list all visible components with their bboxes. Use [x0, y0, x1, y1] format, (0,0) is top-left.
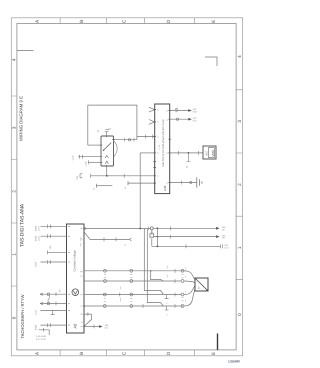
wire module to v-bus: [140, 152, 155, 154]
connector pair on row 156.7: [80, 155, 83, 159]
relay contact pivot: [103, 150, 104, 151]
connector circle a row 281: [104, 280, 107, 283]
stub connector row 185.7: [97, 185, 113, 187]
svg-text:TAS-DIGI TAS-ANA: TAS-DIGI TAS-ANA: [19, 203, 25, 247]
svg-text:31: 31: [81, 320, 84, 323]
connector circle b row 294.5: [130, 293, 133, 296]
end tick row 252.3: [46, 250, 48, 254]
tick row 306: [142, 304, 144, 308]
svg-text:1102: 1102: [85, 161, 88, 167]
svg-text:1119: 1119: [38, 226, 41, 231]
wire A8 row 226.3: [40, 225, 66, 227]
junction dot row y236.6: [157, 236, 159, 238]
tick row y228: [170, 226, 172, 230]
relay bottom stub: [106, 166, 108, 176]
wire relay pin to loop: [114, 139, 137, 141]
relay K1: [101, 136, 114, 166]
connector circle row 2: [176, 118, 178, 120]
connector link a rows 271-281: [104, 274, 106, 277]
connector pair row 236.2: [48, 234, 51, 238]
continuation arrow row 303.5: [40, 302, 43, 304]
junction dot row y246.3: [157, 245, 159, 247]
vertical bus vM: [147, 229, 163, 307]
tick row y246.3: [185, 244, 187, 248]
connector circle row 306r: [181, 305, 184, 308]
node stub at frame left: [17, 50, 34, 52]
bar row 183: [127, 181, 129, 185]
end connector row y246.3: [221, 244, 223, 248]
bracket before circle: [148, 227, 150, 231]
connector brackets: [125, 138, 135, 142]
connector link b rows 294-306: [130, 298, 132, 302]
svg-text:4: 4: [237, 55, 242, 58]
tick row 294.5: [119, 293, 121, 297]
svg-text:E: E: [211, 352, 216, 355]
wire relay row 162.3: [89, 161, 102, 163]
svg-text:1102: 1102: [35, 309, 38, 315]
module pin ticks right: [168, 111, 171, 183]
junction relay to bus: [106, 175, 108, 177]
output arrow row 1: [170, 110, 190, 112]
unit A8 pin marks inside: [68, 226, 83, 326]
svg-text:2: 2: [237, 183, 242, 186]
svg-text:D11: D11: [105, 327, 110, 330]
continuation arrow row 294.2: [40, 293, 43, 295]
connector pair row 262: [48, 260, 51, 264]
connector pair row 226.3: [48, 224, 51, 228]
wire A8 row 303.5 left: [40, 303, 67, 305]
zone dividers bottom strip: [60, 350, 195, 356]
connector circle a row 306: [103, 305, 106, 308]
svg-text:11: 11: [93, 187, 96, 190]
arrowhead row 1: [188, 109, 192, 112]
svg-text:A: A: [35, 351, 40, 355]
border outer frame: [11, 18, 242, 356]
svg-text:2: 2: [12, 190, 17, 193]
connector symbol left of row 175.8: [80, 174, 91, 178]
relay pin mark b: [105, 161, 108, 164]
arrow row y246.3: [152, 245, 221, 247]
wire module to tachograph VDO: [170, 152, 203, 154]
sensor B7 box: [195, 278, 208, 291]
connector tick on wire: [146, 135, 153, 139]
wire A8 row 236.2: [40, 235, 66, 237]
arrowhead row y236.6: [216, 235, 220, 238]
svg-text:D10: D10: [224, 246, 229, 249]
svg-text:VDO: VDO: [211, 149, 215, 156]
arrowhead row 2: [188, 118, 192, 121]
wire A8 row 239: [84, 232, 130, 240]
tick row 182.5: [181, 181, 183, 185]
twisted pair link: [48, 295, 50, 302]
svg-text:C: C: [121, 19, 126, 23]
wire A8 row 325.1: [40, 324, 66, 326]
junction dot hook: [83, 326, 85, 328]
svg-text:m: m: [166, 302, 169, 304]
tick row 303.5: [55, 302, 57, 306]
vertical bus vL: [144, 229, 163, 295]
connector pair row 1: [176, 108, 178, 110]
tick row y236.6: [170, 235, 172, 239]
end mark row 239: [130, 238, 132, 241]
svg-text:31: 31: [185, 165, 188, 168]
svg-text:D: D: [166, 351, 171, 355]
module pin ticks left: [153, 110, 156, 184]
wire row 183 to module: [128, 182, 155, 184]
twisted pair connector circle b: [47, 302, 50, 305]
svg-text:1102: 1102: [38, 235, 41, 241]
svg-text:4448: 4448: [35, 235, 38, 241]
vertical below square: [151, 238, 153, 246]
relay pin mark a: [105, 155, 108, 158]
svg-text:B 12 1102: B 12 1102: [36, 338, 47, 341]
svg-text:TACHOGRAPH / RTYW: TACHOGRAPH / RTYW: [20, 294, 25, 338]
junction vR row 271: [150, 270, 152, 272]
tick r row 306: [174, 304, 176, 308]
wire A8 to bus row 228.5: [84, 228, 150, 230]
tick on row 175.8: [123, 174, 125, 178]
wire A8 bottom arrow row: [84, 326, 100, 328]
module A38 box: [155, 104, 170, 194]
svg-text:A8: A8: [73, 323, 78, 329]
svg-text:SAB TAS DI YR PARt q/TuAn 24V: SAB TAS DI YR PARt q/TuAn 24V 8d 17a bn: [162, 119, 165, 167]
svg-text:B7: B7: [198, 286, 201, 289]
svg-text:K15: K15: [193, 119, 198, 122]
svg-text:4449: 4449: [35, 225, 38, 231]
tick on hook: [87, 312, 89, 316]
svg-text:LD56848: LD56848: [228, 360, 240, 364]
stub down from VDO wire: [186, 153, 190, 162]
sensor diagonal: [196, 279, 208, 291]
svg-text:5: 5: [124, 244, 127, 246]
zone dividers left strip: [11, 96, 17, 286]
svg-text:E: E: [211, 20, 216, 23]
relay top connector: [105, 129, 111, 132]
arrow row y228: [153, 227, 217, 229]
svg-text:B7: B7: [59, 288, 62, 292]
fork arrow pin 2: [149, 120, 155, 125]
svg-text:WIRING DIAGRAM 9 E: WIRING DIAGRAM 9 E: [19, 96, 24, 141]
wire A8 row 294.5 sensor feed: [84, 294, 181, 296]
tick bottom arrow row: [93, 325, 95, 329]
connector circle stack top: [150, 227, 153, 230]
curve into sensor pin 4: [184, 288, 195, 306]
connector circle a row 271: [104, 269, 107, 272]
svg-text:4449: 4449: [35, 324, 38, 330]
svg-text:B: B: [79, 352, 84, 355]
svg-text:A38: A38: [163, 185, 167, 191]
zone dividers right strip: [236, 90, 243, 280]
shield stub row 294.5: [165, 295, 169, 299]
sheet reference corner mark: [205, 57, 217, 66]
wire into relay pin row 145: [88, 144, 101, 146]
svg-text:D: D: [166, 19, 171, 23]
svg-text:1: 1: [237, 246, 242, 249]
tiny label above row 294.5: [120, 287, 122, 302]
tick r row 294.5: [174, 293, 176, 297]
svg-text:m: m: [166, 314, 169, 316]
svg-text:17: 17: [97, 129, 100, 132]
svg-text:A 36 4449: A 36 4449: [36, 335, 47, 338]
wire loop to module A38 pin: [137, 136, 155, 138]
connector circle b row 271: [130, 269, 133, 272]
connector square: [150, 234, 154, 237]
shield stub row 310.4: [51, 310, 55, 314]
svg-text:3322: 3322: [35, 261, 38, 267]
relay pin ticks: [100, 135, 115, 167]
svg-text:1: 1: [12, 253, 17, 256]
connector link a rows 294-306: [104, 298, 106, 302]
wire row 281 sensor feed: [84, 280, 181, 282]
connector pair row 325.1: [48, 323, 51, 327]
zone dividers top strip: [60, 18, 195, 24]
tick row 281: [174, 279, 176, 283]
relay top stub: [106, 132, 108, 137]
connector circle b row 281: [130, 280, 133, 283]
relay arc: [114, 141, 118, 157]
connector bracket row 162.3: [88, 160, 90, 164]
arrowhead bottom row: [99, 325, 103, 328]
unit A8 box: [67, 224, 85, 333]
junction on VDO wire: [188, 152, 190, 154]
svg-text:3: 3: [12, 126, 17, 129]
svg-text:C: C: [121, 351, 126, 355]
ground wire row 182.5: [170, 182, 197, 184]
wire A8 row 271 sensor feed: [84, 270, 187, 272]
connector circle row 294.5: [181, 293, 184, 296]
connector circle a row 294.5: [103, 293, 106, 296]
vertical link v2: [156, 228, 158, 246]
bar row 185.7: [96, 184, 98, 188]
svg-text:3: 3: [237, 120, 242, 123]
vertical bus vR: [151, 271, 164, 281]
curve into sensor pin 1: [184, 271, 195, 280]
svg-text:4: 4: [12, 58, 17, 61]
connector circle b row 306: [130, 305, 133, 308]
svg-text:0: 0: [12, 316, 17, 319]
tick row 294.2: [55, 292, 57, 296]
tachograph VDO inner box: [208, 148, 214, 158]
arrow row y236.6: [154, 236, 217, 238]
tick row 271: [174, 269, 176, 273]
svg-text:17 8a: 17 8a: [158, 144, 161, 150]
A8 inner pin text marks: [80, 237, 82, 247]
sensor corner dot: [206, 289, 208, 291]
tick on VDO wire: [178, 151, 198, 155]
arrowhead row y228: [216, 227, 220, 230]
pin socket circle at A8 edge: [83, 227, 85, 229]
wire loop feed to relay: [88, 105, 137, 145]
connector link b rows 271-281: [130, 274, 132, 277]
ticks row 239: [104, 238, 116, 242]
continuation mark dark line: [217, 334, 219, 350]
connector link rows 294-304: [181, 298, 183, 301]
pin labels at sensor connectors: [167, 266, 185, 302]
border inner frame: [17, 24, 236, 350]
wire A8 row 310.4: [40, 309, 66, 311]
curve into sensor pin 3: [184, 286, 195, 295]
shield stub row 306: [165, 306, 169, 310]
svg-text:160: 160: [49, 245, 52, 250]
svg-text:A: A: [35, 19, 40, 23]
wire A8 row 306 sensor feed: [84, 305, 183, 307]
unit A8 regulator circle: [72, 289, 79, 296]
wire A8 row 252.3: [47, 251, 66, 253]
module pin number marks: [157, 110, 168, 183]
junction dot A8 row 306: [83, 305, 85, 307]
svg-text:0: 0: [237, 313, 242, 316]
svg-text:775: 775: [76, 175, 79, 180]
junction dot row y228: [157, 227, 159, 229]
wire bend bottom left: [39, 330, 50, 335]
wire A8 row 262: [40, 261, 66, 263]
relay contact: [103, 143, 111, 151]
junction v1 bus: [139, 228, 141, 230]
jumper hook A8: [84, 314, 92, 326]
fork arrow pin 1: [149, 107, 155, 112]
svg-text:B: B: [79, 20, 84, 23]
connector circle row 182.5: [190, 181, 192, 183]
connector link: [151, 230, 153, 234]
twisted pair connector circle a: [47, 293, 50, 296]
curve into sensor pin 2: [184, 281, 195, 282]
tick bend: [43, 328, 45, 332]
svg-text:K30: K30: [193, 111, 198, 114]
wire relay row 156.7: [78, 156, 101, 158]
connector link rows 271-281: [181, 275, 183, 278]
svg-text:11: 11: [124, 186, 127, 189]
svg-text:A17: A17: [206, 150, 209, 155]
output arrow row 2: [170, 118, 190, 120]
vertical bus v1: [139, 153, 141, 229]
tachograph A17 box: [203, 146, 216, 159]
svg-text:1119: 1119: [72, 155, 75, 161]
wire A8 row 294.2 left: [40, 293, 67, 295]
regulator circle marks: [73, 291, 77, 295]
connector circle r row 281: [181, 280, 184, 283]
connector circle r row 271: [181, 269, 184, 272]
ground symbol: [197, 177, 202, 187]
svg-text:Constant Voltage: Constant Voltage: [72, 250, 76, 272]
wire row 175.8 bus: [91, 175, 155, 177]
connector circle on relay wire: [128, 139, 130, 141]
